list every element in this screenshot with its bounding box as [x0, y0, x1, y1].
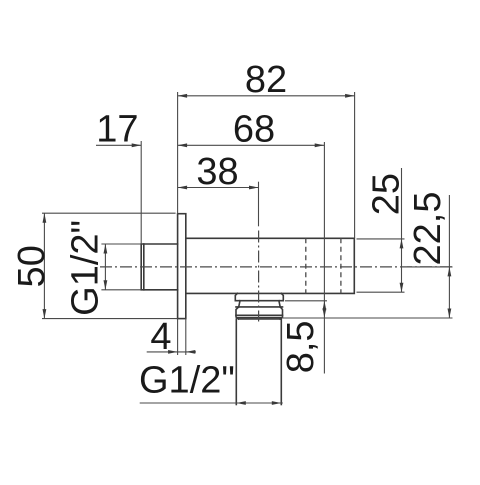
svg-text:G1/2": G1/2" — [139, 360, 235, 402]
svg-text:68: 68 — [233, 108, 275, 150]
svg-text:50: 50 — [11, 245, 53, 287]
svg-text:8,5: 8,5 — [280, 320, 322, 373]
svg-text:4: 4 — [150, 316, 171, 358]
svg-text:G1/2": G1/2" — [64, 220, 106, 316]
svg-text:25: 25 — [365, 173, 407, 215]
svg-text:22,5: 22,5 — [407, 192, 449, 266]
svg-text:38: 38 — [196, 151, 238, 193]
svg-text:82: 82 — [245, 59, 287, 101]
svg-text:17: 17 — [96, 108, 138, 150]
